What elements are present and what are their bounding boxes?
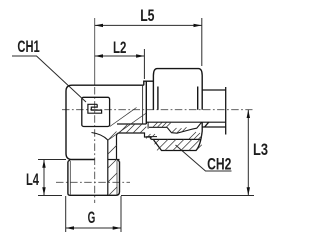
body collar step [144,81,154,85]
hex flat square on body face (CH1) [82,97,110,126]
centerline horizontal tube axis [62,109,253,111]
dimension L3 (lines and arrows) [121,110,254,196]
svg-text:L4: L4 [26,171,40,189]
nut hex facet edges [158,87,198,110]
spiral mark on body face [88,104,102,113]
leader line CH1 [12,56,86,102]
dimension L2 (lines and arrows) [95,49,145,79]
leader line CH2 [176,145,232,171]
svg-text:L3: L3 [253,141,268,159]
boss bottom edge [117,123,146,125]
stud thread root lines [70,161,117,195]
dimension L4 (lines and arrows) [38,160,66,196]
body right face [142,85,144,124]
boss end face [145,81,147,124]
dimension L5 (lines and arrows) [95,18,202,66]
centerline horizontal through stud thread [56,181,130,183]
cutting ring sleeve profile [167,122,202,133]
tube end seat step [147,122,149,128]
tube outer diameter left segment [149,126,167,128]
body underside profile in section [117,133,202,160]
elbow body outline [66,85,144,159]
centerline vertical stud axis [94,18,96,203]
sleeve lower edge segment [147,136,158,138]
compression nut outline [153,69,202,110]
svg-text:CH1: CH1 [17,38,39,56]
bore wall in section [107,140,109,195]
svg-text:L5: L5 [140,7,154,25]
section hatch of nut and tube wall [146,123,202,151]
svg-text:L2: L2 [113,39,126,57]
nut lower half section outline [154,122,203,151]
tube stub [202,87,226,135]
dimension G (lines and arrows) [66,196,121,232]
tube inner diameter line in section [146,121,225,123]
stud top edge in section [108,159,120,161]
section hatch of elbow body wall [108,108,146,195]
elbow bore fillet curve [92,133,108,141]
threaded stud outline [68,160,120,196]
svg-text:G: G [88,209,96,227]
